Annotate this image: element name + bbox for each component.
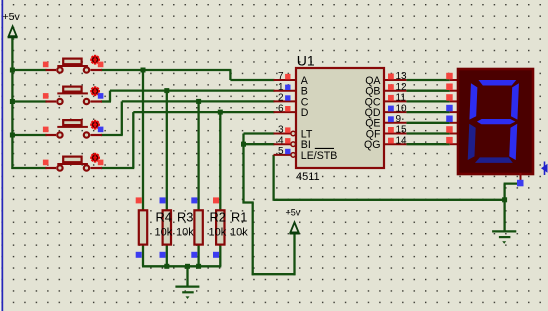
node junction (12.4,135) (10, 133, 15, 138)
pin 11 output QC stub (384, 100, 406, 102)
pin 5 state square (285, 149, 290, 154)
svg-text:5: 5 (278, 146, 284, 157)
display common pin stub (520, 173, 522, 181)
button SW1 actuator marker (90, 55, 100, 65)
svg-text:6: 6 (278, 103, 284, 114)
pin 13 output QA stub (384, 79, 406, 81)
pin 4 inversion bubble (291, 142, 296, 147)
display segment C (lit) (509, 124, 517, 160)
pin 3 state square (285, 127, 290, 132)
display segment G (lit) (477, 119, 515, 124)
display pin state square QA (446, 73, 453, 80)
svg-text:9: 9 (396, 114, 402, 125)
button SW3 (46, 120, 103, 138)
pin 1 state square (285, 85, 290, 90)
resistor R2 label (209, 210, 227, 239)
button SW1 left state square (high) (43, 62, 49, 68)
display segment F (lit) (469, 83, 477, 119)
display pin state square QF (446, 126, 453, 133)
pin 9 output QE stub (384, 122, 406, 124)
pin 14 output QG stub (384, 143, 406, 145)
svg-text:U1: U1 (297, 53, 315, 69)
pin 11 state square (IC side) (388, 95, 394, 101)
resistor R2 10k (194, 210, 202, 244)
resistor R2 top state square (191, 197, 197, 203)
wire rail to button 4 (11, 167, 46, 169)
wire resistor R4 lead to net A (142, 70, 144, 211)
svg-text:+5v: +5v (3, 11, 21, 23)
resistor R3 label (176, 210, 194, 239)
pin 9 state square (IC side) (388, 116, 394, 122)
pin 15 state square (IC side) (388, 127, 394, 133)
display pin state square QG (446, 137, 453, 144)
button SW3 right state square (98, 127, 104, 133)
wire rail to button 3 (11, 134, 46, 136)
pin name LE/STB with overline (301, 148, 338, 161)
node junction (166.8,266.3) (164, 264, 169, 269)
pin 1 input B stub (274, 90, 297, 92)
node junction (504.6,199.8) (502, 197, 507, 202)
resistor R1 bottom state square (low) (213, 252, 219, 258)
pin 6 input D stub (274, 111, 297, 113)
pin 7 state square (285, 74, 290, 79)
pin 15 output QF stub (384, 133, 406, 135)
svg-text:7: 7 (278, 71, 284, 82)
display pin stub QC (450, 100, 458, 102)
wire rail to button 2 (11, 100, 46, 102)
node junction (143,70) (141, 68, 146, 73)
display pin stub QD (450, 111, 458, 113)
button SW4 left state square (high) (43, 160, 49, 166)
button SW1 (46, 59, 103, 73)
wire rail to button 1 (11, 69, 46, 71)
pin 10 state square (IC side) (388, 106, 394, 112)
node junction (198.6,101.4) (196, 99, 201, 104)
wire +5v rail vertical (11, 37, 13, 169)
pin 2 input C stub (274, 100, 297, 102)
display pin state square QD (446, 105, 453, 112)
wire resistor ground bus (142, 265, 221, 267)
pin 2 state square (285, 95, 290, 100)
node junction (12.4,101.5) (10, 99, 15, 104)
svg-text:QG: QG (364, 139, 380, 151)
display pin state square QB (446, 84, 453, 91)
svg-text:13: 13 (396, 71, 408, 82)
pin 3 inversion bubble (291, 131, 296, 136)
resistor R3 10k (163, 210, 171, 244)
display pin stub QB (450, 90, 458, 92)
svg-text:R1: R1 (231, 210, 247, 225)
resistor R4 top state square (136, 197, 142, 203)
pin 7 input A stub (274, 79, 297, 81)
svg-text:4511: 4511 (296, 171, 320, 183)
svg-text:10: 10 (396, 103, 408, 114)
display segment B (lit) (511, 83, 519, 119)
pin 12 state square (IC side) (388, 84, 394, 90)
pin 4 state square (285, 138, 290, 143)
display pin state square QC (446, 94, 453, 101)
button SW2 (46, 87, 103, 105)
svg-text:11: 11 (396, 93, 407, 104)
svg-text:1: 1 (278, 82, 284, 93)
button SW4 actuator marker (90, 153, 100, 163)
pin 5 inversion bubble (291, 153, 296, 158)
svg-text:3: 3 (278, 125, 284, 136)
wire resistor R2 lead to net C (197, 101, 199, 211)
IC U1 4511 body (296, 68, 384, 168)
display pin stub QA (450, 79, 458, 81)
svg-text:LE/STB: LE/STB (301, 150, 338, 162)
svg-text:4: 4 (278, 135, 284, 146)
svg-text:D: D (301, 107, 309, 119)
display pin state square QE (446, 116, 453, 123)
display pin stub QE (450, 122, 458, 124)
resistor R2 bottom state square (low) (191, 252, 197, 258)
display segment D (unlit) (475, 157, 513, 163)
display segment A (lit) (478, 80, 516, 86)
svg-text:14: 14 (396, 135, 408, 146)
svg-text:10k: 10k (230, 227, 248, 239)
node junction (243.5,144.2) (241, 142, 246, 147)
cursor marker right edge (541, 162, 548, 176)
wire ground stem left (186, 265, 188, 285)
wire LE/STB to ground net (272, 155, 274, 201)
resistor R3 bottom state square (low) (160, 252, 166, 258)
pin 4 control stub (274, 143, 291, 145)
display segment E (unlit) (468, 124, 476, 160)
pin 12 output QB stub (384, 90, 406, 92)
wire button3 to pin C (101, 134, 123, 136)
7-segment display body (458, 69, 533, 174)
button SW2 left state square (high) (43, 93, 49, 99)
+5v power arrow top-left (8, 26, 18, 37)
pin 5 control stub (274, 154, 291, 156)
wire button2 to pin B (101, 100, 111, 102)
button SW3 left state square (high) (43, 127, 49, 133)
wire display common to ground (504, 182, 521, 184)
svg-text:2: 2 (278, 93, 284, 104)
pin 13 state square (IC side) (388, 74, 394, 80)
wire button1 to pin A (101, 69, 231, 71)
svg-text:+5v: +5v (286, 207, 301, 217)
node junction (12.4,70) (10, 68, 15, 73)
pin 3 control stub (274, 133, 291, 135)
pin 10 output QD stub (384, 111, 406, 113)
button SW2 right state square (98, 93, 104, 99)
svg-text:10k: 10k (209, 227, 227, 239)
+5v power arrow middle (290, 222, 300, 233)
button SW1 right state square (98, 62, 104, 68)
pin 14 state square (IC side) (388, 138, 394, 144)
svg-text:10k: 10k (155, 227, 173, 239)
display pin stub QF (450, 133, 458, 135)
resistor R1 10k (216, 210, 224, 244)
wire button4 to pin D (101, 167, 134, 169)
wires QA-QG to display (406, 79, 449, 81)
pin 6 state square (285, 106, 290, 111)
button SW2 actuator marker (90, 86, 100, 96)
svg-text:10k: 10k (176, 227, 194, 239)
display pin stub QG (450, 143, 458, 145)
svg-text:12: 12 (396, 82, 408, 93)
resistor R4 bottom state square (low) (136, 252, 142, 258)
node junction (220.3,112.1) (218, 110, 223, 115)
wire BI to junction (244, 143, 275, 145)
svg-text:15: 15 (396, 125, 408, 136)
window left edge (0, 0, 1, 311)
resistor R4 10k (139, 210, 147, 244)
ground (resistor bus) (175, 287, 199, 299)
node junction (198.6,266.3) (196, 264, 201, 269)
button SW4 right state square (98, 160, 104, 166)
wire LT to junction (244, 132, 275, 134)
resistor R1 label (230, 210, 248, 239)
button SW4 (46, 157, 103, 171)
resistor R1 top state square (213, 197, 219, 203)
wire resistor R1 lead to net D (219, 112, 221, 211)
svg-text:R4: R4 (156, 210, 172, 225)
node junction (166.8,90.6) (164, 88, 169, 93)
ground (display common / LE) (492, 231, 516, 243)
svg-text:R3: R3 (177, 210, 193, 225)
resistor R3 top state square (160, 197, 166, 203)
display common state square (low) (517, 180, 524, 187)
resistor R4 label (155, 210, 173, 239)
button SW3 actuator marker (90, 120, 100, 130)
node junction (187.5,266.3) (185, 264, 190, 269)
wire resistor R3 lead to net B (166, 91, 168, 211)
wire LT/BI down to +5v (242, 134, 244, 204)
svg-text:R2: R2 (210, 210, 226, 225)
